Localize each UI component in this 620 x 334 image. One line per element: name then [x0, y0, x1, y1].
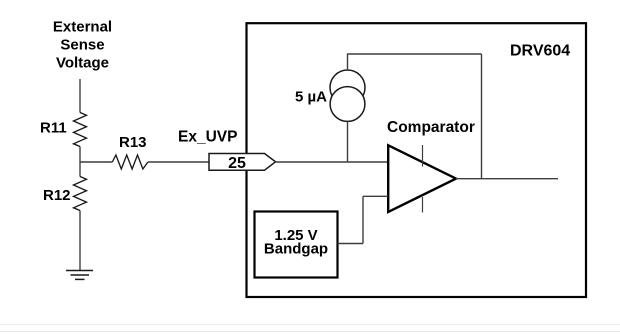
- wire from External Sense Voltage node down to R11: [79, 79, 81, 113]
- svg-text:External: External: [53, 19, 112, 36]
- wire divider junction to R13: [80, 161, 112, 163]
- svg-text:R11: R11: [40, 120, 67, 137]
- svg-text:Bandgap: Bandgap: [264, 241, 328, 258]
- current source I1 (5 uA): [330, 70, 365, 121]
- wire R13 to pin 25: [148, 161, 209, 163]
- comparator input tick (top): [422, 145, 424, 167]
- comparator U1: [388, 145, 456, 212]
- svg-text:5 µA: 5 µA: [295, 89, 327, 106]
- label Comparator: [387, 119, 475, 136]
- wire feedback down to comparator output: [481, 54, 483, 179]
- wire bandgap output to comparator inverting input: [363, 195, 388, 197]
- svg-text:Sense: Sense: [60, 37, 104, 54]
- wire bandgap output (horizontal from box): [338, 243, 364, 245]
- svg-text:Voltage: Voltage: [56, 55, 109, 72]
- label DRV604: [510, 43, 570, 60]
- wire current source top stub: [347, 54, 349, 71]
- wire current source top rail (horizontal): [348, 53, 482, 55]
- net label Ex_UVP: [178, 129, 237, 146]
- resistor R11: [40, 113, 87, 147]
- svg-text:25: 25: [228, 155, 246, 172]
- value label 5 uA: [295, 89, 327, 106]
- wire current source bottom to input net: [347, 121, 349, 162]
- wire pin 25 to comparator non-inverting input: [276, 161, 389, 163]
- wire R11 bottom to divider junction: [79, 147, 81, 163]
- IC boundary box DRV604: [247, 23, 587, 297]
- svg-text:Ex_UVP: Ex_UVP: [178, 129, 237, 146]
- resistor R12: [43, 177, 87, 211]
- svg-text:DRV604: DRV604: [510, 43, 570, 60]
- ground: [66, 271, 93, 280]
- wire divider junction to R12 top: [79, 162, 81, 177]
- block 1.25 V Bandgap: [255, 212, 338, 278]
- wire bandgap output (vertical riser): [362, 196, 364, 243]
- wire comparator output: [456, 178, 558, 180]
- svg-text:R12: R12: [43, 187, 71, 204]
- comparator input tick (bottom): [422, 197, 424, 213]
- wire R12 bottom to ground: [79, 211, 81, 271]
- resistor R13: [112, 134, 148, 169]
- pin 25 (Ex_UVP input pin symbol): [209, 154, 276, 173]
- svg-text:Comparator: Comparator: [387, 119, 475, 136]
- svg-text:R13: R13: [119, 134, 147, 151]
- node External Sense Voltage: [53, 19, 112, 72]
